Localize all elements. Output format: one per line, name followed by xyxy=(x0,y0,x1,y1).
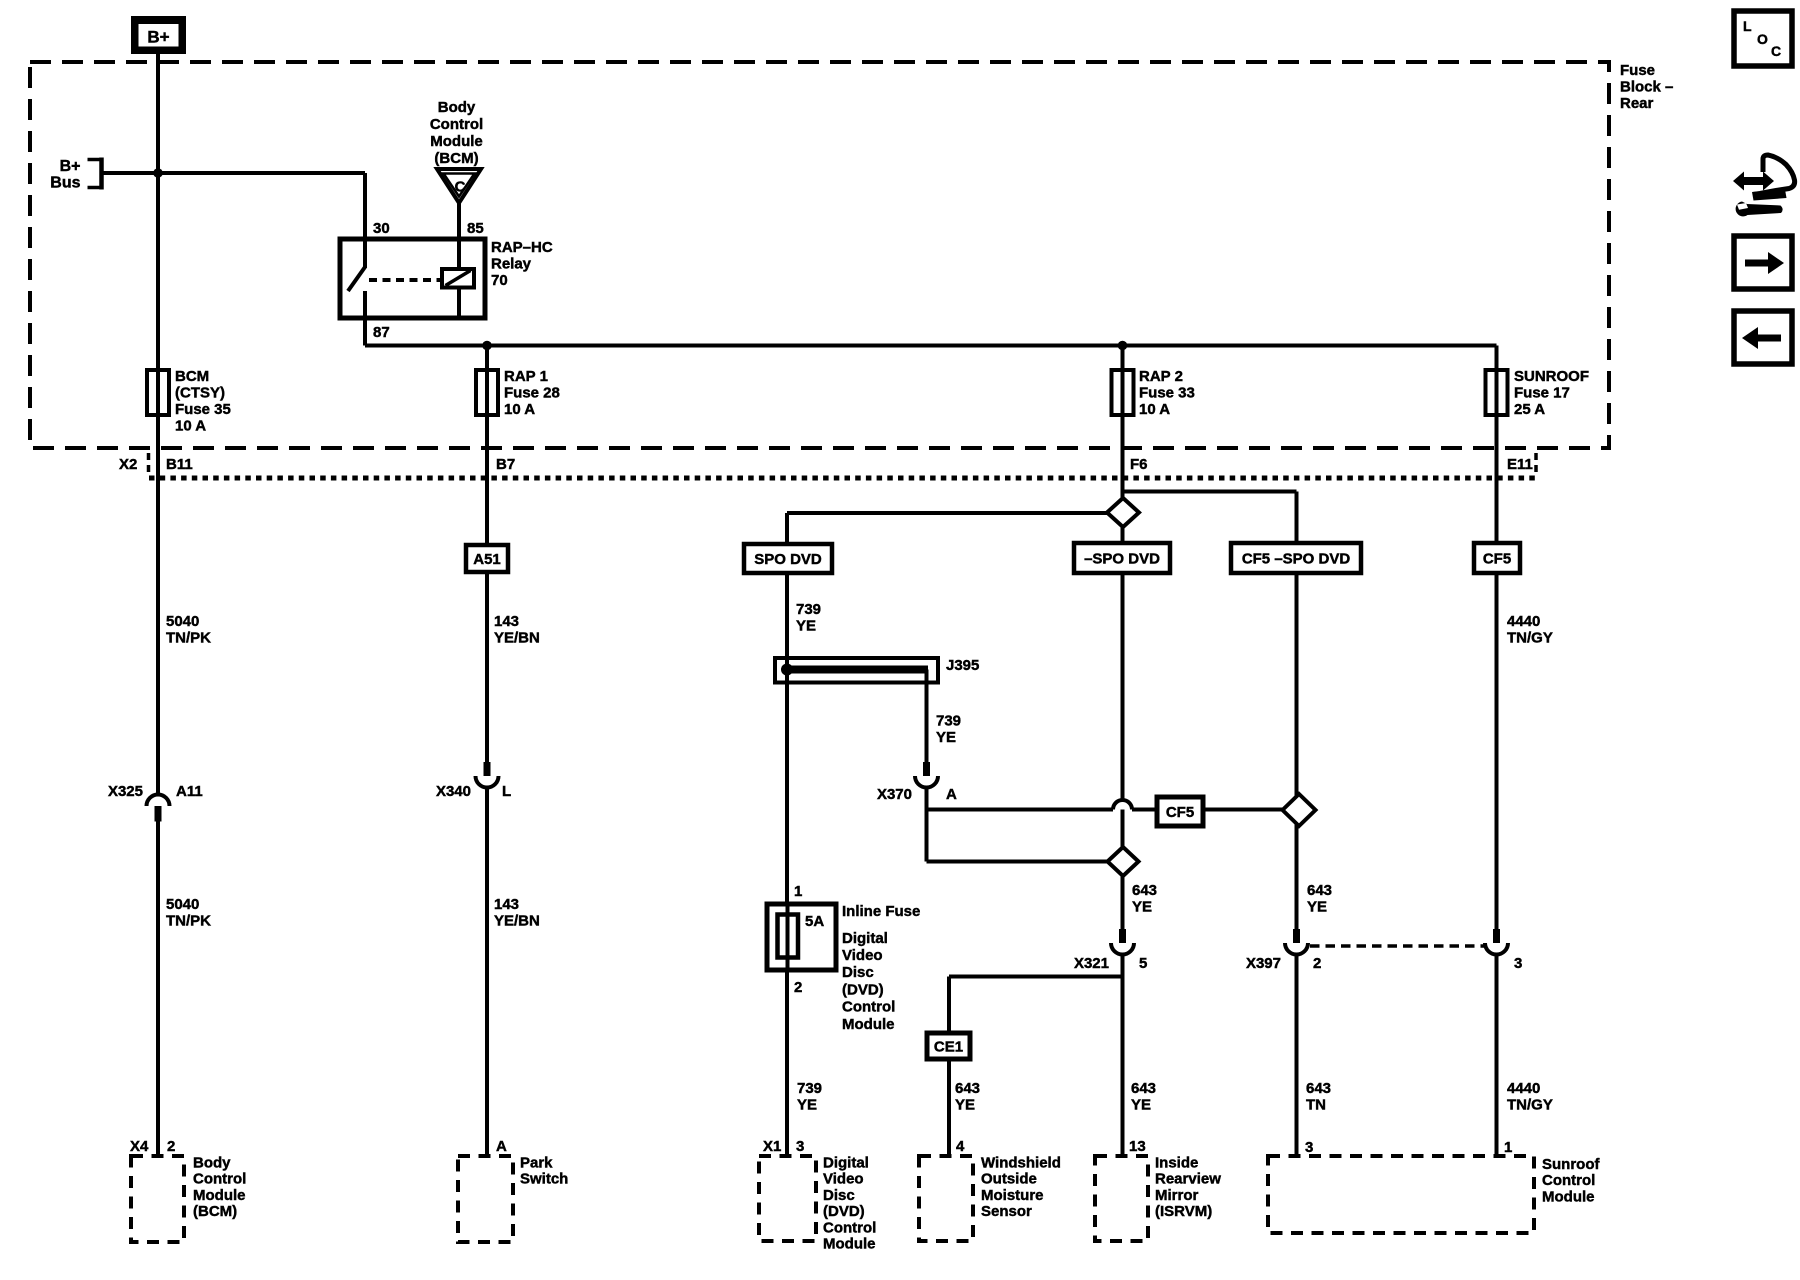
svg-text:A: A xyxy=(496,1138,507,1155)
connector X397 symbol xyxy=(1293,929,1300,944)
splice diamond lower (X370 branch) xyxy=(1108,847,1139,876)
svg-text:C: C xyxy=(455,179,466,196)
svg-text:Rearview: Rearview xyxy=(1155,1171,1221,1188)
svg-text:1: 1 xyxy=(1504,1139,1512,1156)
svg-text:X340: X340 xyxy=(436,783,471,800)
svg-text:Control: Control xyxy=(842,999,895,1016)
wire branch F6 to CF5-SPO DVD horizontal xyxy=(1123,490,1297,494)
svg-text:Rear: Rear xyxy=(1620,95,1654,112)
relay pin30 inner stub xyxy=(363,239,367,268)
net label box CF5 (right) xyxy=(1474,543,1520,573)
module box Windshield Outside Moisture Sensor xyxy=(919,1156,973,1241)
splice pack J395 drop stub xyxy=(925,670,929,683)
svg-text:YE: YE xyxy=(955,1097,975,1114)
svg-text:5040: 5040 xyxy=(166,896,199,913)
svg-text:CF5 –SPO DVD: CF5 –SPO DVD xyxy=(1242,550,1351,567)
net label box CF5 -SPO DVD xyxy=(1231,543,1361,573)
svg-text:Module: Module xyxy=(823,1236,876,1253)
svg-text:X4: X4 xyxy=(130,1138,149,1155)
svg-text:739: 739 xyxy=(797,1080,822,1097)
svg-text:Digital: Digital xyxy=(842,930,888,947)
svg-text:2: 2 xyxy=(167,1138,175,1155)
svg-text:YE/BN: YE/BN xyxy=(494,913,540,930)
splice diamond on -SPO DVD feed xyxy=(1107,498,1139,527)
svg-text:–SPO DVD: –SPO DVD xyxy=(1084,550,1160,567)
wire relay pin85 feed from BCM triangle xyxy=(457,203,461,237)
svg-text:J395: J395 xyxy=(946,657,979,674)
connector X321 symbol xyxy=(1119,929,1126,944)
svg-text:4440: 4440 xyxy=(1507,613,1540,630)
svg-text:85: 85 xyxy=(467,220,484,237)
svg-text:(BCM): (BCM) xyxy=(434,150,478,167)
svg-text:10 A: 10 A xyxy=(1139,401,1170,418)
svg-text:Mirror: Mirror xyxy=(1155,1187,1199,1204)
splice diamond CF5 branch xyxy=(1283,794,1316,826)
icon hand cuff bar xyxy=(1752,190,1787,201)
wire ISRVM drop below X321 (x=1122.5) xyxy=(1121,946,1125,1156)
svg-text:3: 3 xyxy=(1514,955,1522,972)
wire lower branch to diamond (y=861.5) xyxy=(927,860,1116,864)
svg-text:RAP–HC: RAP–HC xyxy=(491,239,553,256)
fuse block - rear dashed boundary box xyxy=(30,62,1609,448)
B+ power terminal box xyxy=(131,16,186,54)
svg-text:SUNROOF: SUNROOF xyxy=(1514,368,1589,385)
relay coil diagonal xyxy=(446,271,471,286)
svg-text:B+: B+ xyxy=(147,28,169,47)
svg-text:SPO DVD: SPO DVD xyxy=(754,551,822,568)
node junction dot RAP2 fuse feed xyxy=(1118,341,1128,351)
svg-text:(DVD): (DVD) xyxy=(823,1203,865,1220)
wire RAP2 fuse drop / circuit 739-643 trunk (x=1122.5) xyxy=(1121,346,1125,930)
connector row tick X2 xyxy=(147,453,151,477)
wire main feed bus horizontal (pin87 to fuses) xyxy=(365,344,1497,348)
svg-text:2: 2 xyxy=(1313,955,1321,972)
svg-text:143: 143 xyxy=(494,896,519,913)
relay switch arm xyxy=(348,267,365,291)
node junction dot RAP1 fuse feed xyxy=(482,341,492,351)
module box Park Switch xyxy=(458,1156,513,1242)
svg-text:X1: X1 xyxy=(763,1138,781,1155)
svg-text:5: 5 xyxy=(1139,955,1147,972)
wire SPO DVD branch horizontal (y=513) xyxy=(787,511,1112,515)
svg-text:Module: Module xyxy=(430,133,483,150)
svg-text:4: 4 xyxy=(956,1138,965,1155)
svg-text:X321: X321 xyxy=(1074,955,1109,972)
svg-text:RAP 2: RAP 2 xyxy=(1139,368,1183,385)
svg-text:30: 30 xyxy=(373,220,390,237)
connector X370 symbol xyxy=(923,762,930,777)
relay coil box xyxy=(442,269,474,288)
svg-text:B+: B+ xyxy=(60,158,81,175)
wire relay pin30 feed vertical xyxy=(363,173,367,237)
svg-text:10 A: 10 A xyxy=(175,418,206,435)
wire B+ bus horizontal xyxy=(103,171,365,175)
BCM source triangle symbol C xyxy=(437,169,481,203)
module box Sunroof Control Module xyxy=(1268,1156,1534,1233)
splice pack J395 bus bar xyxy=(783,666,928,674)
svg-text:Video: Video xyxy=(823,1171,864,1188)
svg-text:(ISRVM): (ISRVM) xyxy=(1155,1203,1212,1220)
net label box CF5 (splice) xyxy=(1157,797,1203,826)
svg-text:Control: Control xyxy=(823,1219,876,1236)
icon LOC box xyxy=(1734,11,1792,66)
svg-text:739: 739 xyxy=(796,601,821,618)
svg-text:5A: 5A xyxy=(805,913,824,930)
net label box CE1 xyxy=(927,1033,970,1059)
svg-text:Fuse: Fuse xyxy=(1620,62,1655,79)
svg-text:X370: X370 xyxy=(877,786,912,803)
net label box A51 xyxy=(466,545,508,572)
connector row dotted line xyxy=(149,476,1538,481)
wire SPO DVD drop / circuit 739 YE (x=787) xyxy=(785,513,789,1156)
wire X370-A branch horizontal right part to CF5 splice xyxy=(1132,808,1291,812)
wire crossover hop over -SPO DVD wire xyxy=(1113,800,1132,810)
connector X340 symbol xyxy=(484,762,491,777)
wire B+ feed vertical (x=158) xyxy=(156,54,160,1156)
svg-text:Bus: Bus xyxy=(50,174,80,191)
svg-text:F6: F6 xyxy=(1130,456,1148,473)
svg-text:5040: 5040 xyxy=(166,613,199,630)
svg-text:A11: A11 xyxy=(176,783,203,800)
svg-text:25 A: 25 A xyxy=(1514,401,1545,418)
inline fuse outer box xyxy=(767,904,836,970)
svg-text:Sensor: Sensor xyxy=(981,1203,1032,1220)
inline fuse element xyxy=(778,915,799,958)
svg-text:YE: YE xyxy=(1307,899,1327,916)
svg-text:(BCM): (BCM) xyxy=(193,1203,237,1220)
svg-text:643: 643 xyxy=(1131,1080,1156,1097)
svg-text:TN/PK: TN/PK xyxy=(166,913,211,930)
fuse BCM (CTSY) Fuse 35 10A symbol xyxy=(147,370,169,415)
svg-text:739: 739 xyxy=(936,713,961,730)
svg-text:Body: Body xyxy=(193,1155,231,1172)
svg-text:Fuse 33: Fuse 33 xyxy=(1139,385,1195,402)
connector sunroof pin3 symbol xyxy=(1493,929,1500,944)
svg-text:10 A: 10 A xyxy=(504,401,535,418)
svg-text:YE: YE xyxy=(796,618,816,635)
svg-text:Fuse 17: Fuse 17 xyxy=(1514,385,1570,402)
svg-text:Disc: Disc xyxy=(842,964,874,981)
svg-text:TN: TN xyxy=(1306,1097,1326,1114)
icon wrench xyxy=(1736,202,1783,217)
svg-text:YE: YE xyxy=(797,1097,817,1114)
svg-text:A: A xyxy=(946,786,957,803)
svg-text:Inline Fuse: Inline Fuse xyxy=(842,903,920,920)
svg-text:CF5: CF5 xyxy=(1166,804,1194,821)
svg-text:Disc: Disc xyxy=(823,1187,855,1204)
svg-text:Moisture: Moisture xyxy=(981,1187,1044,1204)
svg-text:Fuse 35: Fuse 35 xyxy=(175,401,231,418)
svg-text:Module: Module xyxy=(193,1187,246,1204)
svg-text:Control: Control xyxy=(430,116,483,133)
relay actuator dashed line xyxy=(369,278,440,282)
svg-text:Inside: Inside xyxy=(1155,1155,1198,1172)
svg-text:Switch: Switch xyxy=(520,1171,568,1188)
relay pin87 inner stub xyxy=(363,291,367,319)
svg-text:CE1: CE1 xyxy=(934,1038,963,1055)
net label box SPO DVD xyxy=(744,544,832,573)
svg-text:643: 643 xyxy=(955,1080,980,1097)
svg-text:Sunroof: Sunroof xyxy=(1542,1156,1600,1173)
svg-text:Video: Video xyxy=(842,947,883,964)
svg-text:YE/BN: YE/BN xyxy=(494,630,540,647)
svg-text:YE: YE xyxy=(1131,1097,1151,1114)
icon next page arrow xyxy=(1745,252,1784,274)
svg-text:2: 2 xyxy=(794,979,802,996)
svg-text:X2: X2 xyxy=(119,456,137,473)
svg-text:70: 70 xyxy=(491,272,508,289)
svg-text:X325: X325 xyxy=(108,783,143,800)
connector row tick E11 xyxy=(1534,453,1538,477)
svg-text:13: 13 xyxy=(1129,1138,1146,1155)
svg-text:A51: A51 xyxy=(473,551,501,568)
module box Inside Rearview Mirror xyxy=(1095,1156,1148,1241)
svg-text:4440: 4440 xyxy=(1507,1080,1540,1097)
module box Body Control Module (BCM) xyxy=(131,1156,184,1242)
svg-text:X397: X397 xyxy=(1246,955,1281,972)
svg-text:Block –: Block – xyxy=(1620,79,1673,96)
icon hand outline xyxy=(1753,155,1795,195)
svg-text:87: 87 xyxy=(373,324,390,341)
svg-text:E11: E11 xyxy=(1507,456,1533,473)
svg-text:CF5: CF5 xyxy=(1483,550,1511,567)
fuse RAP1 Fuse 28 10A symbol xyxy=(476,370,498,415)
wire sunroof pin1 drop below connector (x=1496.5) xyxy=(1495,946,1499,1156)
svg-text:L: L xyxy=(502,783,511,800)
net label box -SPO DVD xyxy=(1074,543,1170,573)
svg-text:Digital: Digital xyxy=(823,1155,869,1172)
icon next page arrow box xyxy=(1734,236,1792,289)
wire RAP1 fuse drop / circuit 143 (x=487) xyxy=(485,346,489,1157)
svg-text:143: 143 xyxy=(494,613,519,630)
svg-text:Module: Module xyxy=(1542,1188,1595,1205)
svg-text:Module: Module xyxy=(842,1016,895,1033)
icon prev page arrow xyxy=(1742,327,1781,349)
svg-text:Control: Control xyxy=(1542,1172,1595,1189)
svg-text:L: L xyxy=(1743,18,1752,34)
svg-text:1: 1 xyxy=(794,883,802,900)
fuse RAP2 Fuse 33 10A symbol xyxy=(1112,370,1134,415)
svg-text:YE: YE xyxy=(1132,899,1152,916)
wire X370-A branch horizontal left part (y=809.5) xyxy=(927,808,1114,812)
svg-text:Control: Control xyxy=(193,1171,246,1188)
connector X325 symbol xyxy=(147,795,170,806)
svg-text:TN/GY: TN/GY xyxy=(1507,1097,1553,1114)
node junction dot B+ bus / BCM fuse feed xyxy=(153,168,163,178)
wire J395 to X370 drop then down to diamond row (x=926.5) xyxy=(925,673,929,862)
B+ Bus bracket symbol xyxy=(99,158,104,190)
fuse SUNROOF Fuse 17 25A symbol xyxy=(1486,370,1508,415)
wire CE1 drop to windshield sensor (x=949) xyxy=(947,977,951,1157)
icon prev page arrow box xyxy=(1734,311,1792,364)
splice pack J395 box xyxy=(775,658,938,683)
svg-text:Outside: Outside xyxy=(981,1171,1037,1188)
wire dashed link X397 to sunroof connector xyxy=(1310,944,1487,948)
svg-text:643: 643 xyxy=(1306,1080,1331,1097)
svg-text:Body: Body xyxy=(438,99,476,116)
svg-text:O: O xyxy=(1757,31,1768,47)
wire CF5-SPO DVD drop / circuit 643 TN (x=1296.5) xyxy=(1295,492,1299,1157)
svg-text:C: C xyxy=(1771,43,1781,59)
svg-text:Windshield: Windshield xyxy=(981,1155,1061,1172)
svg-text:Fuse 28: Fuse 28 xyxy=(504,385,560,402)
relay RAP-HC box xyxy=(340,239,485,318)
svg-text:3: 3 xyxy=(1305,1139,1313,1156)
wire X321 branch horizontal (y=976.5) xyxy=(949,975,1123,979)
svg-text:TN/PK: TN/PK xyxy=(166,630,211,647)
module box DVD Control Module xyxy=(759,1156,816,1241)
svg-text:3: 3 xyxy=(796,1138,804,1155)
wire SUNROOF fuse drop / circuit 4440 (x=1496.5) xyxy=(1495,346,1499,930)
svg-text:B11: B11 xyxy=(166,456,193,473)
svg-text:B7: B7 xyxy=(496,456,515,473)
svg-text:RAP 1: RAP 1 xyxy=(504,368,548,385)
svg-text:Park: Park xyxy=(520,1155,553,1172)
svg-text:BCM: BCM xyxy=(175,368,209,385)
node junction dot J395 xyxy=(781,664,793,676)
relay pin85 inner wire upper xyxy=(457,239,461,270)
svg-text:(CTSY): (CTSY) xyxy=(175,385,225,402)
svg-text:643: 643 xyxy=(1132,882,1157,899)
relay pin85 inner wire lower xyxy=(457,288,461,318)
inline fuse wire through xyxy=(786,904,790,970)
icon swap double arrow xyxy=(1733,172,1774,191)
svg-text:TN/GY: TN/GY xyxy=(1507,630,1553,647)
svg-text:(DVD): (DVD) xyxy=(842,981,884,998)
wire relay pin87 output vertical xyxy=(363,319,367,346)
svg-text:643: 643 xyxy=(1307,882,1332,899)
svg-text:YE: YE xyxy=(936,729,956,746)
svg-text:Relay: Relay xyxy=(491,256,532,273)
